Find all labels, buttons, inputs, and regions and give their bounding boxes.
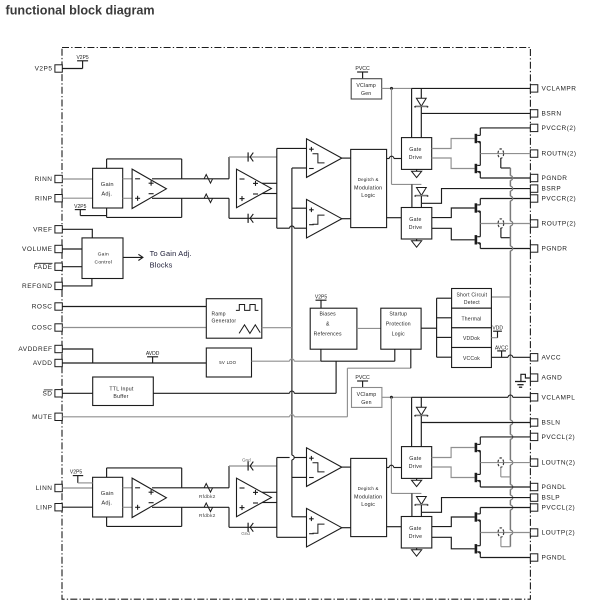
- svg-text:ROUTP(2): ROUTP(2): [542, 221, 577, 228]
- label Gnd (upper K): [242, 458, 251, 463]
- wire LOUTP feedback branch: [501, 538, 511, 547]
- label To Gain Adj. Blocks: [150, 249, 192, 269]
- svg-text:Detect: Detect: [464, 300, 480, 306]
- op-amp U2 (integrator): [237, 169, 272, 208]
- svg-text:V2P5: V2P5: [70, 470, 82, 476]
- wire TTL buffer output: [153, 391, 336, 393]
- wire VClamp to Gate Drive R-high: [411, 88, 413, 137]
- svg-text:VClamp: VClamp: [356, 83, 376, 89]
- svg-text:VCLAMPR: VCLAMPR: [542, 86, 577, 93]
- svg-text:AVDD: AVDD: [146, 351, 160, 357]
- label Gnd (lower K): [241, 531, 250, 536]
- pin ROSC: [32, 303, 63, 311]
- Gate Drive block 2: [401, 208, 432, 240]
- pin COSC: [32, 324, 63, 332]
- node column (signal to comparators, top): [277, 148, 307, 228]
- resistor on upper path: [204, 175, 213, 184]
- svg-text:VOLUME: VOLUME: [22, 246, 53, 253]
- resistor on lower path: [204, 194, 213, 203]
- svg-text:Startup: Startup: [389, 311, 407, 317]
- title: [6, 3, 155, 17]
- wire PVCCR rail (lower): [480, 198, 530, 200]
- AVDD supply tap: [146, 351, 160, 363]
- svg-text:Drive: Drive: [409, 155, 423, 161]
- svg-text:TTL Input: TTL Input: [109, 387, 134, 393]
- pin BSLN (y=422.5): [530, 419, 560, 427]
- wire logic to Gate Drive 2: [387, 217, 402, 219]
- Ramp Generator block: [206, 299, 261, 339]
- wire logic to Gate Drive 1: [387, 156, 402, 158]
- wire Startup bottom stem 1: [394, 349, 396, 361]
- Gate Drive block 4: [401, 517, 432, 549]
- Gate Drive block 1: [402, 138, 432, 170]
- transistor pair Q1/Q2 (ROUTN half-bridge): [475, 128, 481, 178]
- wire Gate Drive 4 outputs to FET gates: [432, 517, 475, 549]
- svg-text:Logic: Logic: [361, 502, 375, 508]
- arrow To Gain Adj Blocks: [123, 254, 143, 260]
- svg-text:LINN: LINN: [36, 485, 53, 492]
- wire LOUTP output: [480, 532, 530, 534]
- feedback rail lower with capacitor K: [229, 214, 277, 223]
- wire SD branch up: [335, 361, 337, 393]
- svg-text:&: &: [326, 322, 330, 328]
- wire ROUTP output: [480, 223, 530, 225]
- ground symbol at AGND: [515, 374, 530, 387]
- wire PGNDL (lower): [480, 557, 530, 559]
- pin REFGND: [22, 282, 62, 290]
- op-amp U2L (integrator): [237, 478, 272, 517]
- svg-text:VCCok: VCCok: [463, 356, 480, 362]
- svg-text:MUTE: MUTE: [32, 414, 53, 421]
- svg-text:ROUTN(2): ROUTN(2): [542, 151, 577, 158]
- node column (signal to comparators, bottom): [277, 458, 307, 538]
- wire MUTE path: [62, 368, 411, 417]
- svg-text:V2P5: V2P5: [315, 294, 327, 300]
- resistor on upper path Rfdbk2: [204, 484, 213, 493]
- svg-text:Gnd: Gnd: [241, 531, 250, 536]
- transistor pair Q5/Q6 (LOUTN half-bridge): [475, 437, 481, 487]
- pin VCLAMPR (y=88.4): [530, 85, 576, 93]
- Gain Adj blockL: [93, 477, 123, 517]
- svg-text:RINP: RINP: [35, 195, 53, 202]
- pin PGNDL (y=487.0): [530, 483, 566, 491]
- svg-text:V2P5: V2P5: [35, 66, 53, 73]
- svg-text:ROSC: ROSC: [32, 304, 53, 311]
- pin PVCCR(2) (y=198.5): [530, 195, 576, 203]
- svg-text:Gain: Gain: [101, 491, 114, 497]
- svg-text:Thermal: Thermal: [461, 317, 481, 323]
- svg-text:V2P5: V2P5: [76, 55, 88, 61]
- pin LOUTP(2) (y=532.5): [530, 529, 575, 537]
- svg-text:PVCC: PVCC: [355, 375, 370, 381]
- ground arrow under Gate Drive 4: [412, 548, 422, 556]
- svg-text:AVCC: AVCC: [495, 345, 509, 351]
- ground arrow under Gate Drive 2: [412, 239, 422, 247]
- wire COSC: [62, 327, 206, 329]
- wire PVCCL rail (lower): [480, 507, 530, 509]
- diode D1 (BSRN bootstrap): [414, 88, 428, 113]
- svg-text:Control: Control: [95, 259, 113, 265]
- svg-text:Gen: Gen: [361, 91, 371, 97]
- svg-text:AGND: AGND: [542, 375, 563, 382]
- svg-text:RINN: RINN: [35, 176, 53, 183]
- wire V2P5 pin: [62, 68, 82, 70]
- wire comparators to logic (L): [342, 467, 351, 528]
- wire Gate Drive 2 outputs to FET gates: [432, 208, 475, 240]
- wire BSLN: [421, 423, 530, 447]
- pin AGND (y=377.6): [530, 374, 562, 382]
- svg-text:Gnd: Gnd: [242, 458, 251, 463]
- svg-text:Modulation: Modulation: [354, 495, 382, 501]
- inductance oval on LOUTN: [498, 458, 504, 467]
- pin BSRN (y=113.4): [530, 110, 561, 118]
- svg-text:BSLP: BSLP: [542, 495, 561, 502]
- wire VCLAMPR net: [382, 87, 531, 90]
- AVDDREF wire: [62, 349, 92, 363]
- svg-text:Gain: Gain: [98, 252, 109, 258]
- wire Gate Drive 1 outputs to FET gates: [432, 139, 475, 169]
- svg-text:VREF: VREF: [33, 226, 52, 233]
- feedback loop around U1L: [107, 468, 182, 527]
- AVCC supply tap: [495, 345, 509, 357]
- svg-text:AVCC: AVCC: [542, 354, 562, 361]
- svg-text:BSRN: BSRN: [542, 111, 562, 118]
- wire REFGND to Gain Control: [62, 279, 92, 286]
- label Rfdbk2 (upper): [199, 494, 216, 500]
- pin FADE: [34, 263, 63, 271]
- IC boundary (dash-dot border): [62, 48, 530, 600]
- wire logic to Gate Drive 3: [387, 465, 402, 467]
- wire 5V LDO output (AVDD net): [252, 359, 395, 361]
- square wave icon: [236, 305, 259, 311]
- wire VClamp to Gate Drive 2: [411, 184, 413, 207]
- svg-text:Gate: Gate: [409, 526, 421, 532]
- pin AVCC (y=357.3): [530, 354, 561, 362]
- wire BSLP: [421, 498, 530, 517]
- svg-text:Drive: Drive: [409, 464, 423, 470]
- wire RINN input: [62, 178, 92, 180]
- wire short-circuit sense stub: [491, 296, 510, 298]
- comparator A1 (right top): [307, 139, 342, 178]
- pin BSRP (y=188.6): [530, 185, 561, 193]
- pin SD: [42, 390, 62, 398]
- svg-text:REFGND: REFGND: [22, 283, 52, 290]
- svg-text:Logic: Logic: [361, 193, 375, 199]
- wire U2 outputs to column: [262, 183, 277, 193]
- pin PVCCR(2) (y=127.9): [530, 124, 576, 132]
- pin VCLAMPL (y=397.3): [530, 394, 575, 402]
- V2P5 tap at Gain AdjL: [70, 470, 93, 483]
- pin LINN: [36, 484, 63, 492]
- svg-text:LOUTN(2): LOUTN(2): [542, 460, 576, 467]
- wire LINP input: [62, 506, 92, 508]
- inductance oval on LOUTP: [498, 528, 504, 537]
- pin ROUTN(2) (y=153.6): [530, 150, 576, 158]
- ground arrow under Gate Drive 1: [412, 169, 422, 177]
- svg-text:Rfdbk2: Rfdbk2: [199, 513, 216, 519]
- diode D3 (BSLN bootstrap): [414, 397, 428, 422]
- wire Startup to monitor bus: [421, 327, 437, 329]
- wire U2L outputs to column: [262, 492, 277, 502]
- svg-text:Gen: Gen: [361, 400, 371, 406]
- svg-text:Protection: Protection: [386, 322, 411, 328]
- Deglitch & Modulation Logic block (R): [351, 149, 387, 227]
- wire Biases bottom stem: [320, 349, 322, 361]
- U2L input stubs: [228, 466, 230, 527]
- wire VCLAMPL net: [382, 395, 531, 399]
- wire Gain AdjL to op-amp inputs: [123, 488, 132, 508]
- svg-text:Drive: Drive: [409, 225, 423, 231]
- pin AVDD: [33, 359, 62, 367]
- pin PVCCL(2) (y=507.5): [530, 504, 575, 512]
- svg-text:Modulation: Modulation: [354, 186, 382, 192]
- feedback rail lower with capacitor K: [229, 523, 277, 532]
- wire ROSC: [62, 306, 206, 308]
- VDD supply tap: [491, 326, 503, 338]
- VDDok block: [452, 328, 492, 348]
- svg-text:5V LDO: 5V LDO: [219, 360, 236, 365]
- inductance oval on ROUTP: [498, 219, 504, 228]
- ground arrow under Gate Drive 3: [412, 478, 422, 486]
- wire VOLUME to Gain Control: [62, 248, 82, 250]
- comparator A3 (left top): [307, 448, 342, 487]
- pin VREF: [33, 226, 62, 234]
- pin BSLP (y=497.6): [530, 494, 560, 502]
- wire U1 outputs: [152, 179, 229, 199]
- Short Circuit Detect block: [452, 289, 492, 309]
- svg-text:Biases: Biases: [319, 311, 336, 317]
- pin LOUTN(2) (y=462.6): [530, 459, 575, 467]
- AVDD wire: [62, 362, 206, 364]
- wire LINN input: [62, 487, 92, 489]
- diode D2 (BSRP bootstrap): [414, 188, 428, 204]
- wire VREF to Gain Control: [62, 229, 92, 238]
- Gain Adj block: [93, 168, 123, 208]
- wire Gain Adj to op-amp inputs: [123, 179, 132, 199]
- pin MUTE: [32, 413, 62, 421]
- wire AVCC to pin: [491, 355, 530, 357]
- svg-text:PGNDL: PGNDL: [542, 484, 567, 491]
- wire LOUTN feedback branch: [501, 467, 511, 477]
- svg-text:PVCCL(2): PVCCL(2): [542, 434, 576, 441]
- svg-text:Degitch &: Degitch &: [358, 177, 379, 182]
- svg-text:References: References: [314, 331, 342, 337]
- pin V2P5: [35, 65, 63, 73]
- pin PGNDR (y=178.0): [530, 174, 567, 182]
- svg-text:Gate: Gate: [409, 217, 421, 223]
- wire Startup bottom stem 2: [410, 349, 412, 368]
- svg-text:PVCC: PVCC: [355, 66, 370, 72]
- feedback rail upper with capacitor K: [229, 152, 277, 161]
- wire ramp output to RAMP column: [262, 327, 292, 329]
- wire U1L outputs: [152, 488, 229, 508]
- wire VClamp down to BSRP diode (gray): [392, 88, 422, 184]
- Deglitch & Modulation Logic block (L): [351, 458, 387, 536]
- svg-text:Gain: Gain: [101, 182, 114, 188]
- wire PVCCL rail (upper): [480, 436, 530, 438]
- PVCC supply tap (bottom): [355, 375, 370, 387]
- wire comparators to logic (R): [342, 158, 351, 219]
- wire PGNDR (lower): [480, 248, 530, 250]
- wire ROUTP feedback branch: [501, 228, 511, 238]
- wire RINP input: [62, 197, 92, 199]
- label Rfdbk2 (lower): [199, 513, 216, 519]
- svg-text:Buffer: Buffer: [113, 394, 128, 400]
- svg-text:AVDD: AVDD: [33, 360, 53, 367]
- svg-text:Drive: Drive: [409, 534, 423, 540]
- svg-text:VCLAMPL: VCLAMPL: [542, 394, 576, 401]
- svg-text:Gate: Gate: [409, 147, 421, 153]
- 5V LDO block: [206, 348, 251, 377]
- svg-text:BSLN: BSLN: [542, 420, 561, 427]
- wire SD input: [62, 392, 92, 394]
- monitor bus vertical: [436, 298, 438, 357]
- Startup Protection Logic block: [381, 308, 421, 349]
- svg-text:V2P5: V2P5: [74, 204, 86, 210]
- wire LOUTN output: [480, 462, 530, 464]
- svg-text:Logic: Logic: [392, 331, 405, 337]
- svg-text:VDDok: VDDok: [463, 336, 480, 342]
- pin PGNDL (y=557.5): [530, 554, 566, 562]
- svg-text:FADE: FADE: [34, 264, 53, 271]
- pin ROUTP(2) (y=223.5): [530, 220, 576, 228]
- svg-text:PVCCL(2): PVCCL(2): [542, 505, 576, 512]
- pin LINP: [36, 504, 62, 512]
- VClamp Gen block (top): [351, 79, 382, 99]
- wire VClamp to Gate Drive 4: [411, 493, 413, 516]
- svg-text:PVCCR(2): PVCCR(2): [542, 196, 577, 203]
- node RAMP vertical distribution: [292, 168, 307, 517]
- Thermal block: [452, 308, 492, 328]
- transistor pair Q3/Q4 (ROUTP half-bridge): [475, 199, 481, 249]
- svg-text:PVCCR(2): PVCCR(2): [542, 125, 577, 132]
- U2 input stubs: [228, 157, 230, 218]
- feedback rail upper with capacitor K: [229, 461, 277, 470]
- svg-text:Rfdbk2: Rfdbk2: [199, 494, 216, 500]
- wire PGNDL (upper): [480, 486, 530, 488]
- wire Biases to Startup: [357, 327, 381, 329]
- wire BSRN: [421, 113, 530, 137]
- pin VOLUME: [22, 245, 62, 253]
- svg-text:Blocks: Blocks: [150, 261, 173, 270]
- svg-text:PGNDR: PGNDR: [542, 175, 568, 182]
- svg-text:LOUTP(2): LOUTP(2): [542, 530, 576, 537]
- wire Gate Drive 3 outputs to FET gates: [432, 448, 475, 478]
- pin RINP: [35, 195, 62, 203]
- wire VClamp down to BSLP diode (gray): [391, 397, 421, 493]
- svg-text:Adj.: Adj.: [101, 191, 112, 197]
- svg-text:PGNDR: PGNDR: [542, 246, 568, 253]
- svg-text:LINP: LINP: [36, 504, 52, 511]
- V2P5 supply tap: [76, 55, 88, 69]
- wire ROUTN output: [480, 153, 530, 155]
- wire PGNDR (upper): [480, 177, 530, 179]
- svg-text:BSRP: BSRP: [542, 186, 562, 193]
- PVCC supply tap (top): [355, 66, 370, 79]
- V2P5 tap at Biases: [315, 294, 327, 308]
- Biases & References block: [310, 308, 357, 349]
- wire ROUTN feedback branch: [501, 158, 511, 168]
- monitor bus stubs: [437, 298, 452, 357]
- VCCok block: [452, 348, 492, 368]
- svg-text:Degitch &: Degitch &: [358, 486, 379, 491]
- svg-text:Generator: Generator: [212, 319, 237, 325]
- feedback bus vertical (gray): [510, 168, 512, 547]
- svg-text:To Gain Adj.: To Gain Adj.: [150, 249, 192, 258]
- triangle wave icon: [239, 325, 260, 334]
- transistor pair Q7/Q8 (LOUTP half-bridge): [475, 508, 481, 558]
- pin PGNDR (y=248.5): [530, 245, 567, 253]
- Gate Drive block 3: [402, 447, 432, 479]
- op-amp U1 (input amp): [132, 169, 166, 208]
- wire FADE to Gain Control: [62, 266, 82, 268]
- svg-text:functional block diagram: functional block diagram: [6, 3, 155, 17]
- svg-text:VClamp: VClamp: [357, 392, 377, 398]
- comparator A2 (right bottom): [307, 199, 342, 238]
- resistor on lower path Rfdbk2: [204, 503, 213, 512]
- diode D4 (BSLP bootstrap): [414, 497, 428, 513]
- comparator A4 (left bottom): [307, 508, 342, 547]
- svg-text:VDD: VDD: [492, 326, 503, 332]
- wire PVCCR rail (upper): [480, 127, 530, 129]
- svg-text:PGNDL: PGNDL: [542, 555, 567, 562]
- VClamp Gen block (bottom): [352, 388, 382, 408]
- svg-text:Short Circuit: Short Circuit: [457, 293, 488, 299]
- inductance oval on ROUTN: [498, 149, 504, 158]
- svg-text:Gate: Gate: [409, 456, 421, 462]
- svg-text:Adj.: Adj.: [101, 500, 112, 506]
- pin PVCCL(2) (y=436.9): [530, 433, 575, 441]
- TTL Input Buffer block: [93, 377, 154, 406]
- op-amp U1L (input amp): [132, 478, 166, 517]
- Gain Control block: [82, 238, 123, 279]
- wire BSRP: [421, 189, 530, 208]
- feedback loop around U1: [107, 159, 182, 218]
- pin AVDDREF: [18, 345, 62, 353]
- wire logic to Gate Drive 4: [387, 526, 402, 528]
- svg-text:Ramp: Ramp: [212, 312, 226, 318]
- pin RINN: [35, 175, 63, 183]
- svg-text:AVDDREF: AVDDREF: [18, 346, 52, 353]
- svg-text:SD: SD: [42, 390, 52, 397]
- svg-text:COSC: COSC: [32, 325, 53, 332]
- wire VClamp to Gate Drive 3: [411, 397, 413, 446]
- V2P5 tap at Gain Adj: [74, 204, 106, 216]
